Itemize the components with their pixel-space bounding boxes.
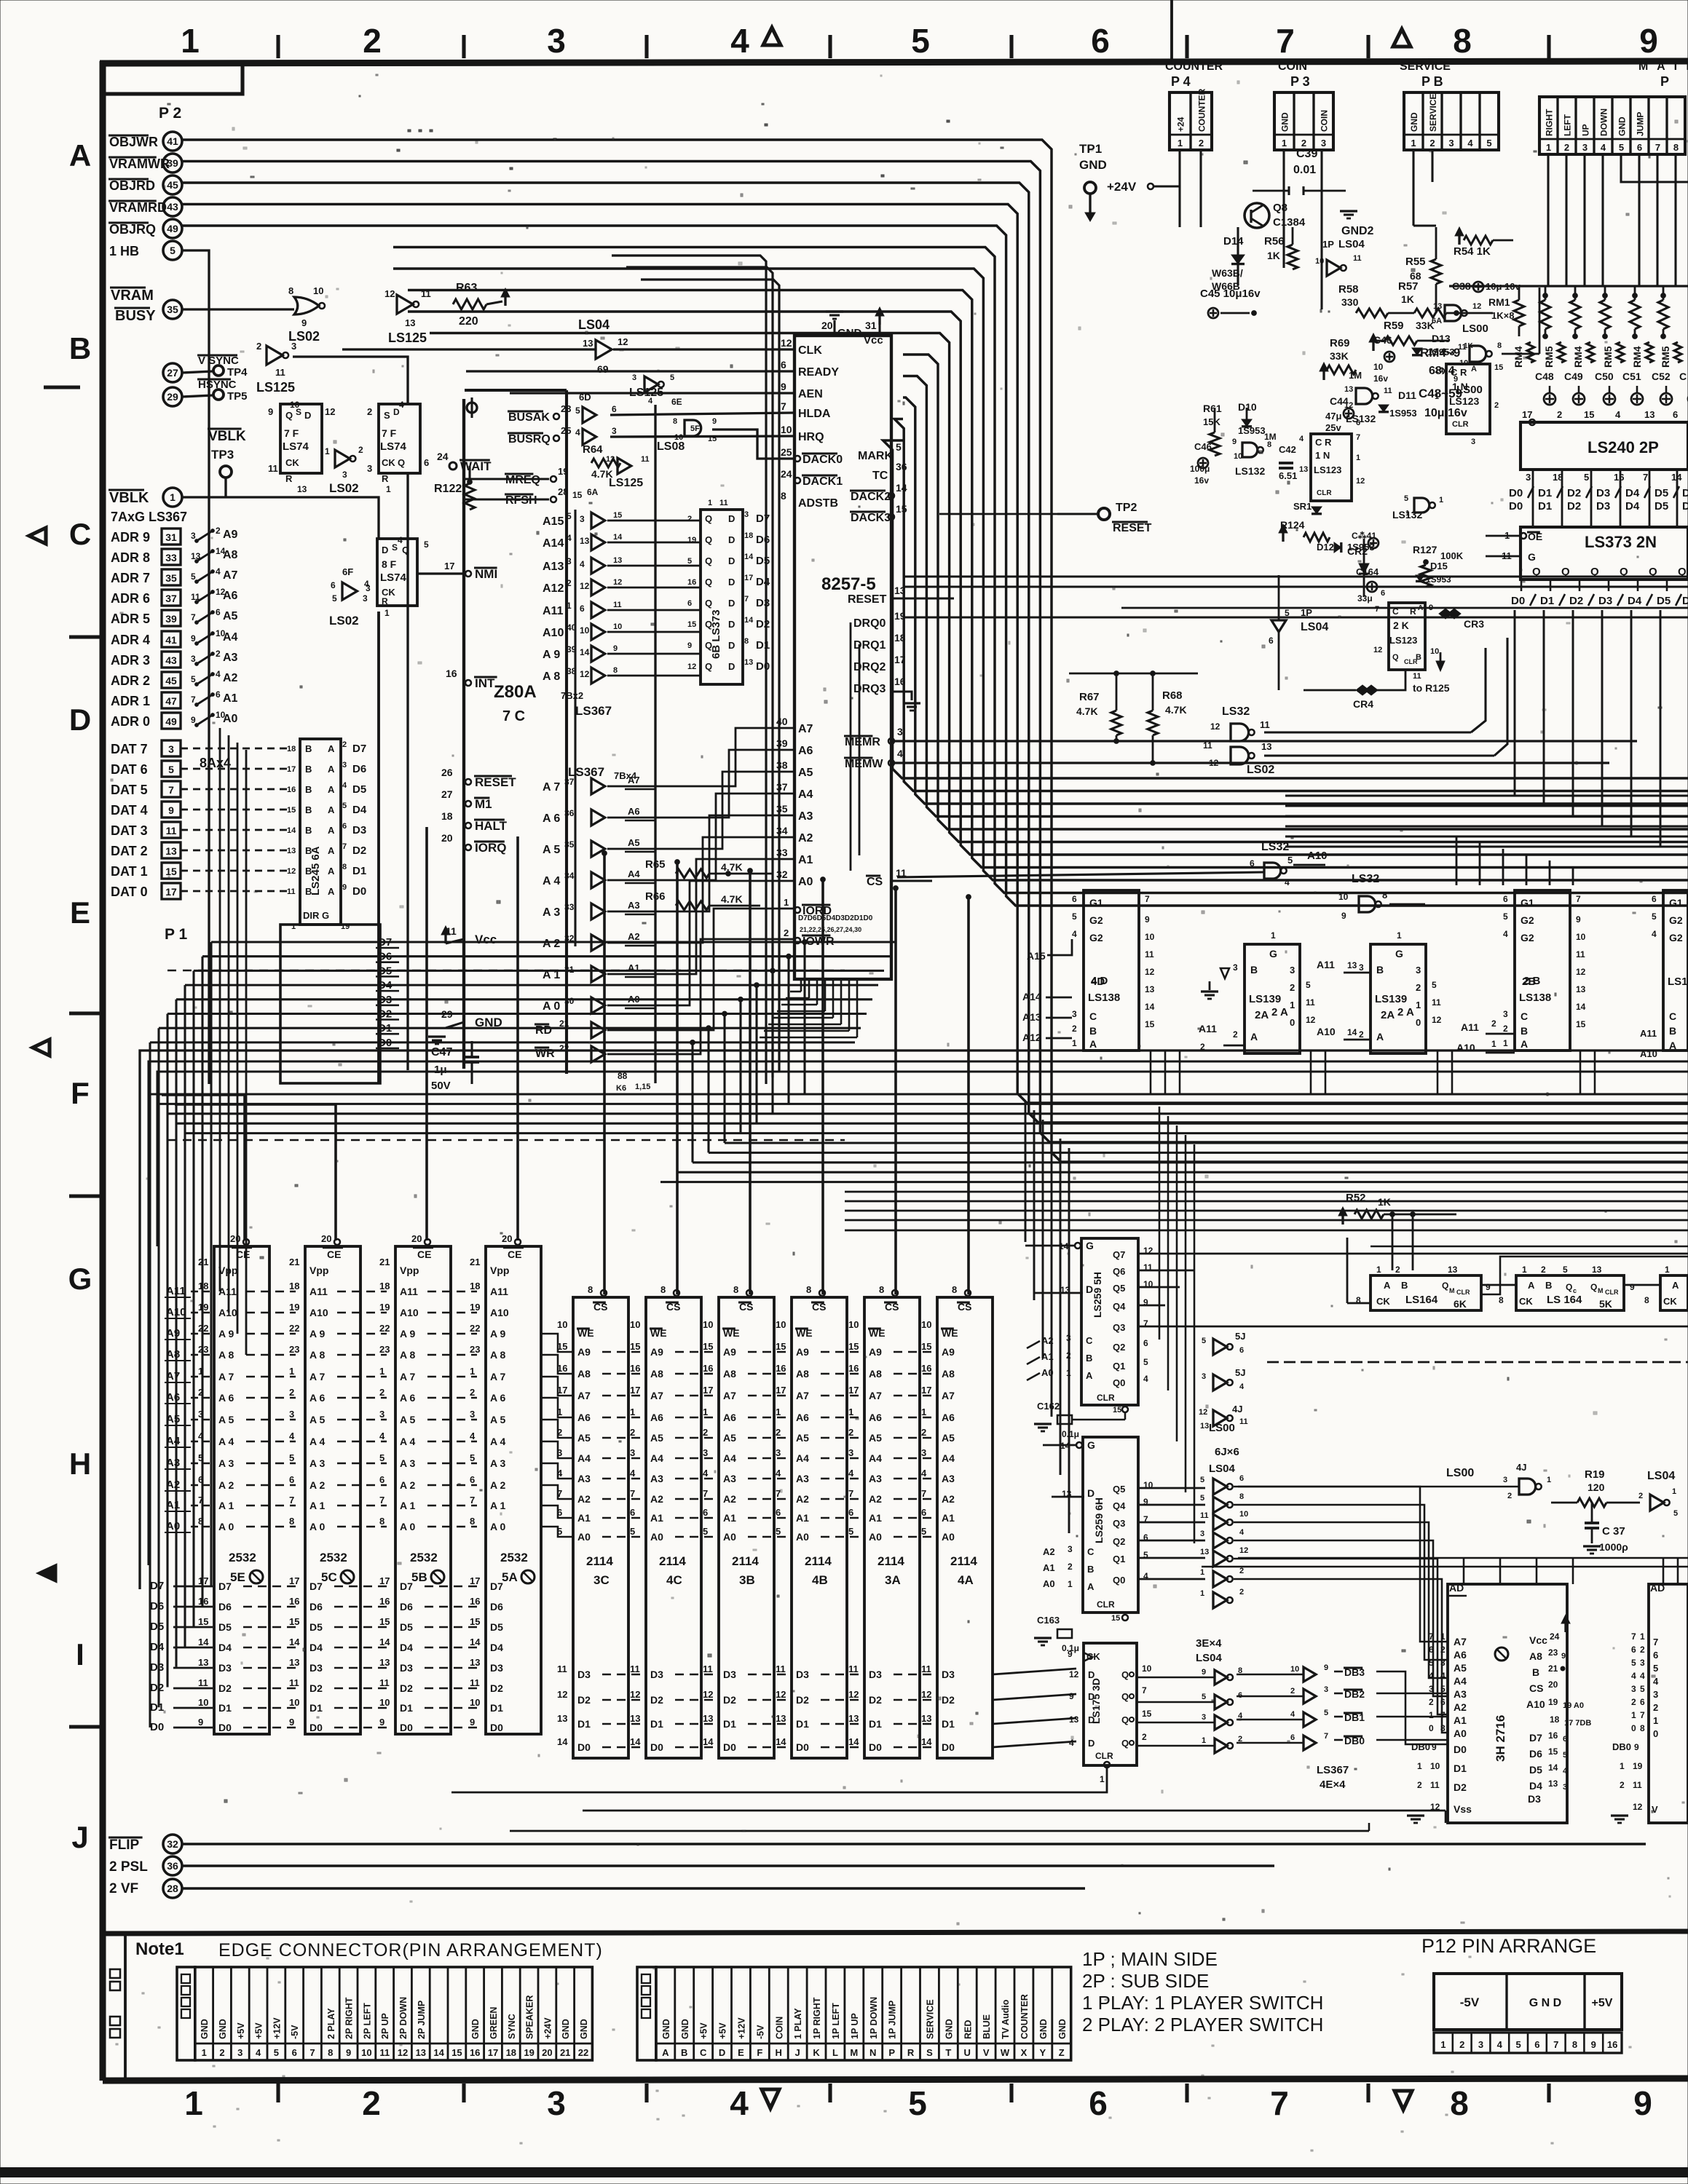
svg-text:5: 5 [911,22,930,60]
svg-text:BUSAK: BUSAK [508,411,550,424]
svg-text:D3: D3 [756,597,770,609]
svg-text:A3: A3 [942,1473,955,1484]
svg-text:A2: A2 [1043,1546,1055,1557]
svg-text:ADR 9: ADR 9 [111,530,150,545]
svg-text:D4: D4 [400,1642,413,1653]
svg-text:11: 11 [275,367,285,378]
svg-text:GREEN: GREEN [489,2007,499,2039]
memory address bus transition 2532 to 2114 [542,1334,574,1352]
svg-text:11: 11 [1203,740,1212,751]
svg-text:LS74: LS74 [380,440,407,453]
svg-text:11: 11 [630,1663,640,1674]
svg-text:13: 13 [580,536,590,546]
gate LS02 2F [294,297,319,314]
svg-text:8: 8 [1673,142,1679,153]
svg-text:24: 24 [781,468,792,480]
svg-text:GND: GND [1409,112,1419,132]
svg-text:13: 13 [1200,1422,1209,1431]
transistor Q8 C1384 [1245,203,1269,228]
svg-text:3: 3 [1526,472,1531,483]
svg-text:8257-5: 8257-5 [821,574,876,594]
svg-text:10: 10 [289,1697,299,1708]
svg-text:11: 11 [848,1663,859,1674]
svg-text:4: 4 [399,400,404,410]
svg-text:1: 1 [1356,454,1360,462]
svg-text:CE: CE [327,1249,341,1260]
svg-text:2: 2 [1233,1029,1238,1040]
svg-text:5: 5 [1515,2039,1521,2050]
svg-text:7: 7 [191,695,196,705]
svg-text:15: 15 [1494,363,1503,372]
svg-text:D3: D3 [1596,487,1610,499]
svg-text:DACK3: DACK3 [851,512,891,524]
svg-text:6: 6 [1637,142,1642,153]
svg-text:A9: A9 [223,529,238,541]
svg-text:D0: D0 [352,885,366,898]
svg-text:5E: 5E [230,1570,245,1584]
svg-text:3: 3 [191,654,196,664]
svg-text:3: 3 [567,556,572,566]
svg-text:2: 2 [1239,1588,1244,1597]
svg-text:P 4: P 4 [1171,74,1191,89]
svg-text:D7: D7 [352,743,366,755]
svg-text:A4: A4 [650,1452,663,1464]
svg-text:B: B [1416,653,1421,662]
svg-text:16: 16 [630,1363,640,1374]
svg-text:G1: G1 [1669,897,1683,909]
svg-text:37: 37 [776,781,788,793]
svg-text:9: 9 [1069,1691,1074,1701]
svg-text:D6: D6 [150,1600,164,1613]
svg-text:2P : SUB SIDE: 2P : SUB SIDE [1082,1970,1209,1992]
svg-text:GND: GND [1079,158,1107,172]
svg-text:A 8: A 8 [218,1349,234,1361]
svg-text:A 9: A 9 [543,649,560,661]
svg-text:18: 18 [1550,1714,1560,1725]
svg-text:4J: 4J [1232,1404,1242,1415]
svg-text:D6: D6 [309,1601,323,1613]
svg-text:2: 2 [1301,138,1306,149]
svg-text:10: 10 [1373,362,1384,372]
svg-text:5: 5 [848,1526,853,1537]
svg-text:D4: D4 [490,1642,503,1653]
svg-text:10: 10 [580,625,590,636]
svg-text:21: 21 [470,1257,480,1267]
svg-text:8: 8 [660,1284,666,1295]
svg-text:6: 6 [1072,894,1077,904]
svg-text:LEFT: LEFT [1563,114,1573,136]
svg-text:LS74: LS74 [380,571,407,584]
svg-text:1: 1 [1200,1568,1204,1577]
svg-text:13: 13 [613,556,622,565]
svg-text:14: 14 [630,1736,641,1747]
bus line right y393 [1449,285,1688,287]
svg-text:8: 8 [613,666,618,675]
svg-text:R19: R19 [1585,1468,1605,1481]
svg-text:16v: 16v [1194,475,1209,486]
svg-text:6: 6 [1239,1474,1244,1483]
svg-text:A3: A3 [869,1473,882,1484]
svg-text:D1: D1 [400,1702,413,1714]
svg-text:24: 24 [1550,1631,1560,1642]
svg-text:P 1: P 1 [165,926,187,943]
svg-text:11: 11 [1432,997,1441,1008]
svg-text:3C: 3C [593,1573,610,1587]
svg-text:A10: A10 [309,1307,328,1318]
svg-text:COUNTER: COUNTER [1165,60,1223,73]
svg-text:4A: 4A [958,1573,974,1587]
svg-text:8: 8 [744,637,749,646]
svg-text:D0: D0 [150,1721,164,1733]
svg-text:D5: D5 [352,783,366,796]
svg-text:6: 6 [703,1507,708,1518]
svg-text:A: A [328,743,335,754]
svg-text:8: 8 [588,1284,593,1295]
svg-text:FLIP: FLIP [109,1837,139,1853]
svg-text:A10: A10 [218,1307,237,1318]
svg-text:Vpp: Vpp [218,1265,237,1276]
svg-text:15: 15 [921,1341,931,1352]
svg-text:A5: A5 [942,1432,955,1444]
svg-text:11: 11 [719,499,728,507]
svg-text:11: 11 [379,1677,390,1688]
svg-text:10: 10 [290,400,300,410]
svg-text:2532: 2532 [320,1551,347,1564]
svg-text:7: 7 [1145,894,1150,904]
svg-text:31: 31 [165,531,177,543]
svg-text:+12V: +12V [736,2017,746,2039]
svg-text:+5V: +5V [254,2022,264,2039]
svg-text:36: 36 [564,808,575,818]
svg-text:D5: D5 [756,555,770,567]
svg-text:14: 14 [744,553,754,561]
svg-text:A0: A0 [1454,1728,1467,1739]
latch LS373 2N box [1521,527,1688,579]
svg-text:Vcc: Vcc [1529,1634,1547,1646]
svg-text:4: 4 [1631,1671,1636,1681]
svg-text:9: 9 [168,804,174,816]
svg-text:9: 9 [1068,1649,1073,1659]
svg-text:Q3: Q3 [1113,1518,1125,1529]
svg-text:4.7K: 4.7K [1165,704,1187,716]
svg-text:11: 11 [1384,387,1392,395]
svg-text:8: 8 [288,285,293,296]
svg-text:ADR 6: ADR 6 [111,591,150,606]
svg-text:1: 1 [1068,1579,1073,1589]
svg-text:D0: D0 [378,1037,392,1049]
svg-text:20: 20 [821,320,833,331]
svg-text:6.51: 6.51 [1279,470,1297,481]
svg-text:D: D [728,661,735,672]
svg-text:10: 10 [1234,452,1242,461]
svg-text:8: 8 [470,1516,475,1527]
svg-text:A6: A6 [223,590,238,602]
svg-text:5J: 5J [1235,1367,1245,1378]
svg-text:12: 12 [325,406,335,417]
svg-text:2: 2 [289,1387,294,1398]
svg-text:G N D: G N D [1529,1997,1561,2009]
svg-text:10: 10 [198,1697,208,1708]
svg-text:A: A [328,764,335,775]
svg-text:33: 33 [165,552,177,563]
svg-text:1: 1 [1503,1038,1508,1048]
svg-text:A2: A2 [223,672,238,684]
svg-text:14: 14 [1576,1002,1586,1012]
svg-text:16: 16 [470,2047,480,2058]
svg-text:C: C [1089,1010,1097,1022]
svg-text:3: 3 [703,1447,708,1458]
svg-text:5K: 5K [1599,1298,1612,1310]
svg-text:W: W [1001,2047,1010,2058]
svg-text:4: 4 [1440,1671,1446,1681]
svg-text:A 4: A 4 [490,1436,505,1447]
svg-text:A5: A5 [798,767,813,779]
svg-text:3E×4: 3E×4 [1196,1637,1222,1650]
gate LS02 6F mid [335,450,350,467]
svg-text:D4: D4 [756,576,770,588]
svg-text:10: 10 [1338,892,1349,902]
svg-text:23: 23 [561,403,571,414]
svg-text:A 7: A 7 [400,1371,415,1382]
svg-text:17: 17 [444,561,454,571]
svg-text:GND: GND [661,2019,671,2039]
svg-text:A1: A1 [942,1512,955,1524]
svg-text:LS1: LS1 [1668,976,1688,988]
svg-text:+5V: +5V [236,2022,246,2039]
wire WAIT vertical [468,466,470,482]
svg-text:12: 12 [1633,1802,1643,1812]
scan noise [620,349,623,351]
svg-text:RM4: RM4 [1513,346,1524,368]
svg-text:17: 17 [287,765,296,774]
svg-text:10: 10 [1430,1761,1440,1771]
svg-text:A3: A3 [796,1473,809,1484]
svg-text:ADR 3: ADR 3 [111,653,150,668]
svg-text:14: 14 [848,1736,859,1747]
svg-text:VRAMWR: VRAMWR [109,157,170,171]
svg-text:2 PSL: 2 PSL [109,1859,148,1875]
svg-text:C162: C162 [1037,1401,1060,1412]
svg-text:A0: A0 [796,1531,809,1543]
svg-text:CLR: CLR [1317,489,1332,497]
svg-text:CLR: CLR [1452,420,1469,429]
svg-text:A1: A1 [1454,1714,1467,1726]
svg-text:2: 2 [1072,1024,1077,1034]
svg-text:D4: D4 [1625,500,1640,513]
svg-text:22: 22 [578,2047,588,2058]
svg-text:3: 3 [547,2084,566,2122]
svg-text:A 5: A 5 [490,1414,505,1425]
svg-text:B: B [1087,1564,1094,1575]
svg-text:M A I N: M A I N [1638,60,1688,73]
svg-text:A 6: A 6 [543,812,560,825]
svg-text:D4: D4 [1628,595,1642,607]
svg-text:A4: A4 [223,631,238,644]
svg-text:DAT 5: DAT 5 [111,783,148,797]
svg-text:D: D [728,619,735,630]
svg-text:1μ: 1μ [434,1064,447,1076]
svg-text:1P LEFT: 1P LEFT [831,2003,841,2039]
svg-text:8: 8 [1239,1492,1244,1501]
svg-text:CLR: CLR [1097,1393,1115,1403]
svg-text:5B: 5B [411,1570,427,1584]
wire data bus D5 [194,970,884,972]
svg-text:3: 3 [367,463,372,474]
svg-text:to R125: to R125 [1413,682,1450,694]
svg-text:2: 2 [1429,138,1435,149]
svg-text:9: 9 [687,641,692,650]
svg-text:1P: 1P [1301,607,1312,618]
svg-text:D3: D3 [218,1662,232,1674]
svg-text:G1: G1 [1089,897,1103,909]
svg-text:10: 10 [1145,932,1155,942]
svg-text:14: 14 [921,1736,932,1747]
svg-text:12: 12 [776,1689,786,1700]
svg-text:6: 6 [292,2047,297,2058]
svg-text:D4: D4 [1625,487,1640,499]
svg-text:35: 35 [564,839,575,850]
svg-text:20: 20 [1548,1679,1558,1690]
svg-text:ADR 0: ADR 0 [111,714,150,729]
svg-text:R: R [382,473,389,484]
phi clock symbol [467,403,477,413]
svg-text:15: 15 [613,511,622,520]
svg-text:11: 11 [379,2047,390,2058]
svg-text:D: D [728,513,735,524]
svg-text:DACK2: DACK2 [851,491,891,503]
svg-text:CLK: CLK [798,344,822,357]
svg-text:D4: D4 [1529,1780,1542,1792]
svg-text:1P RIGHT: 1P RIGHT [812,1997,822,2039]
svg-text:Q: Q [705,555,712,566]
svg-text:LS125: LS125 [629,387,663,399]
svg-text:DACK0: DACK0 [802,454,843,466]
svg-text:R59: R59 [1384,320,1404,332]
svg-text:15: 15 [287,806,296,815]
svg-text:D12: D12 [1317,542,1334,553]
svg-text:13: 13 [1433,302,1442,311]
svg-text:A: A [1471,365,1477,373]
svg-text:12: 12 [1069,1669,1079,1679]
svg-text:5: 5 [896,441,902,453]
svg-text:GND: GND [680,2019,690,2039]
svg-text:13: 13 [744,658,753,667]
svg-text:3: 3 [630,1447,635,1458]
svg-text:4: 4 [1239,1528,1245,1537]
svg-text:CS: CS [867,876,883,888]
svg-text:LS02: LS02 [1247,764,1274,776]
wire LS240 to LS373 drops [1532,470,1534,527]
svg-text:14: 14 [289,1637,300,1647]
svg-text:A 4: A 4 [400,1436,415,1447]
svg-text:A 2: A 2 [490,1479,505,1491]
svg-text:A 1: A 1 [218,1500,234,1511]
svg-text:3: 3 [1631,1684,1636,1694]
svg-text:5: 5 [1143,1357,1148,1367]
svg-text:D1: D1 [1538,500,1552,513]
RAM 2114 4A box [937,1297,993,1758]
svg-text:6: 6 [1269,636,1274,646]
svg-text:5: 5 [567,511,572,521]
svg-text:9: 9 [198,1717,203,1728]
svg-text:10: 10 [470,1697,480,1708]
svg-text:D5: D5 [1657,595,1671,607]
svg-text:D0: D0 [1454,1744,1467,1755]
decoder LS138 2B [1515,890,1570,1051]
note strip top border [103,1931,1688,1934]
svg-text:Vcc: Vcc [864,334,883,347]
svg-text:12: 12 [1432,1015,1442,1025]
bottom page black strip [0,2167,1688,2177]
svg-text:5: 5 [1202,1337,1206,1345]
svg-text:LS138: LS138 [1519,992,1551,1004]
svg-text:6: 6 [1381,589,1385,598]
svg-text:D: D [1088,1738,1095,1749]
svg-text:17: 17 [165,886,177,898]
inverter 3E #3 [1215,1715,1227,1730]
monostable LS123 1N left [1311,434,1352,501]
svg-text:100K: 100K [1440,550,1464,561]
svg-text:33K: 33K [1330,350,1349,362]
svg-text:4: 4 [580,559,585,569]
svg-text:A5: A5 [650,1432,663,1444]
svg-text:VBLK: VBLK [109,490,149,506]
svg-text:19: 19 [1548,1697,1558,1707]
svg-text:1: 1 [170,491,175,503]
svg-text:2A: 2A [1381,1009,1395,1021]
svg-text:3: 3 [289,1409,294,1420]
svg-text:23: 23 [470,1344,480,1355]
svg-text:TP5: TP5 [227,390,248,403]
bus upper-right horizontals [903,575,1688,577]
RAM 2114 4C box [646,1297,701,1758]
svg-text:ADR 7: ADR 7 [111,571,150,585]
svg-text:A: A [328,886,335,897]
border frame top [100,61,1688,63]
quad flip-flop LS175 3D box [1084,1643,1137,1765]
svg-text:DOWN: DOWN [1599,108,1609,136]
diode pair CR4 [1356,685,1369,695]
svg-text:10: 10 [781,424,792,435]
svg-text:10: 10 [848,1319,859,1330]
svg-text:A2: A2 [577,1493,591,1505]
svg-text:5A: 5A [502,1570,518,1584]
svg-text:14: 14 [613,533,623,542]
svg-text:D2: D2 [1567,487,1581,499]
svg-text:A 4: A 4 [218,1436,234,1447]
svg-text:2: 2 [379,1387,384,1398]
left margin open triangle F [33,1040,50,1056]
svg-text:Q: Q [1392,653,1399,662]
svg-text:16: 16 [1548,1730,1558,1741]
svg-text:A9: A9 [723,1346,736,1358]
svg-text:A10: A10 [1526,1698,1545,1710]
svg-text:A7: A7 [869,1390,882,1401]
svg-text:11: 11 [1576,949,1585,960]
svg-text:13: 13 [848,1713,859,1724]
svg-text:C50: C50 [1595,371,1614,382]
svg-text:32: 32 [167,1838,178,1850]
wire G pin feeds [1025,1245,1075,1247]
svg-text:A0: A0 [577,1531,591,1543]
svg-text:28: 28 [167,1883,178,1894]
svg-text:Q: Q [705,513,712,524]
svg-text:A0: A0 [1043,1578,1055,1589]
wire data bus D3 [176,998,872,1000]
svg-text:CS: CS [1529,1682,1543,1694]
svg-text:3: 3 [342,761,347,769]
svg-text:1: 1 [1440,2039,1446,2050]
